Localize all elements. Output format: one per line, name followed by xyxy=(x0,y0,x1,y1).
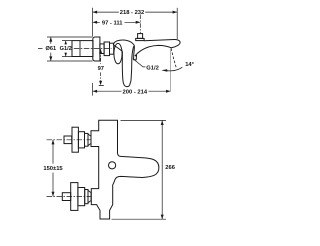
svg-text:14°: 14° xyxy=(185,62,194,68)
dim 266 extension bottom xyxy=(112,218,167,220)
diverter knob base xyxy=(136,38,144,40)
dim D61 extension lines xyxy=(47,37,93,61)
dim 97 vertical xyxy=(100,50,102,84)
body underside xyxy=(114,45,123,51)
lower inlet cone xyxy=(88,190,91,202)
dim D61 xyxy=(50,37,52,61)
wire: center axis dash-dot xyxy=(38,48,112,50)
lower inlet escutcheon xyxy=(71,183,78,211)
svg-text:266: 266 xyxy=(165,165,175,171)
dim 150+-15 xyxy=(52,140,54,197)
14 deg spray dashed line xyxy=(171,48,176,67)
handle xyxy=(122,46,133,86)
upper inlet pipe xyxy=(64,136,72,144)
connector block 2 xyxy=(104,42,109,56)
label G1/2 leader xyxy=(133,59,146,67)
upper inlet axis dash-dot xyxy=(47,139,92,141)
dim 266 xyxy=(161,120,163,219)
diverter knob xyxy=(138,34,143,39)
diverter knob top view xyxy=(109,162,116,169)
14 deg reference vertical xyxy=(170,48,172,91)
knob axis dash-dot xyxy=(139,15,141,34)
connector block 1 xyxy=(100,44,104,54)
connector neck xyxy=(110,43,114,54)
dim 200-214 xyxy=(93,90,171,92)
lower inlet collar xyxy=(85,190,88,204)
lower inlet axis dash-dot xyxy=(47,195,92,197)
body xyxy=(113,40,134,55)
shower outlet under spout xyxy=(134,55,137,60)
14 deg arc arrow xyxy=(167,67,182,71)
upper inlet collar xyxy=(85,133,89,146)
wall nipple G1/2 xyxy=(72,41,93,57)
dim G1/2 vertical xyxy=(65,41,67,57)
svg-text:97 - 111: 97 - 111 xyxy=(102,20,123,26)
svg-text:Ø61: Ø61 xyxy=(46,46,57,52)
upper inlet nut xyxy=(78,132,84,148)
dim 200-214 extension left xyxy=(92,83,94,96)
dim 218-232 extension line right xyxy=(176,8,178,39)
cartridge dome xyxy=(114,43,122,63)
spout xyxy=(135,39,180,55)
svg-text:G1/2: G1/2 xyxy=(146,66,159,72)
dim 266 extension top xyxy=(121,119,167,121)
svg-text:200 - 214: 200 - 214 xyxy=(123,89,148,95)
body outline xyxy=(91,120,159,219)
dim G1/2 extension lines xyxy=(62,41,72,57)
lower inlet nut xyxy=(78,188,85,206)
dim 218-232 extension line left xyxy=(92,8,94,37)
tick shower takeoff xyxy=(99,84,104,86)
lower inlet pipe xyxy=(62,193,70,201)
svg-text:150±15: 150±15 xyxy=(43,166,63,172)
dim 97-111 xyxy=(93,21,141,23)
svg-text:G1/2: G1/2 xyxy=(60,46,72,52)
svg-text:218 - 232: 218 - 232 xyxy=(120,10,145,16)
svg-text:97: 97 xyxy=(98,66,104,72)
upper inlet cone xyxy=(88,134,91,146)
wall escutcheon xyxy=(93,37,100,61)
dim 218-232 xyxy=(93,11,178,13)
upper inlet escutcheon xyxy=(72,127,78,152)
